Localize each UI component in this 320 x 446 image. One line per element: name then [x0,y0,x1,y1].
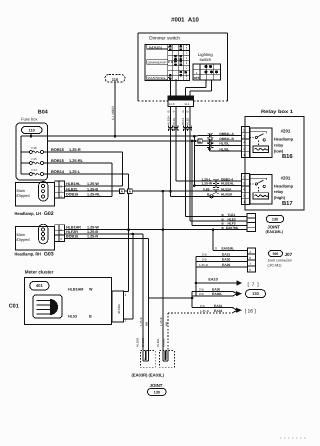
svg-text:B: B [186,111,190,113]
svg-text:HLB2: HLB2 [186,117,190,125]
wire EA07ML branch [212,228,215,231]
svg-text:DIMMER/P: DIMMER/P [148,61,167,65]
svg-text:BOB16: BOB16 [66,235,78,239]
svg-text:(J/C-M1): (J/C-M1) [268,263,282,267]
headlamp LH assembly [16,182,55,206]
svg-text:HLDL: HLDL [172,117,176,125]
svg-text:Headlamp: Headlamp [274,184,294,189]
dimmer MAIN position [147,45,168,49]
svg-text:3: 3 [243,147,245,151]
connector glyph v10 [174,126,178,132]
svg-text:401IBA: 401IBA [117,304,121,314]
svg-text:0.85: 0.85 [203,187,210,191]
connector oval 401 [30,281,49,290]
svg-text:EA31: EA31 [222,253,230,257]
ground terminal 2 [160,351,175,368]
svg-text:[ 7 ]: [ 7 ] [248,282,260,288]
junction 110/bus1 [114,135,117,138]
svg-text:1-I MB03: 1-I MB03 [111,106,115,120]
wire J07 row3 [196,261,247,263]
wire joint row2 [190,220,247,222]
svg-text:EA30: EA30 [222,258,230,262]
svg-text:5: 5 [249,268,251,272]
headlamp RH assembly [16,227,55,251]
glyph B16 row3 [207,143,213,147]
glyph B17 row2 [213,184,219,188]
wire lighting to connector pin3 [205,80,207,88]
wire dimmer to connector pin2 [175,79,177,96]
svg-text:JOINT: JOINT [150,383,163,388]
svg-text:8: 8 [249,256,251,260]
wire HLB2L ground drop [162,191,164,350]
svg-text:1.25-B: 1.25-B [139,317,143,326]
svg-text:BOB16: BOB16 [51,147,65,152]
wire y298 branch [148,297,192,299]
svg-text:130: 130 [252,291,259,296]
svg-text:(low): (low) [274,148,284,153]
svg-text:[ 16 ]: [ 16 ] [245,308,257,314]
fuse box outline [16,123,48,180]
connector A#123 [168,96,194,107]
svg-text:1.25-B: 1.25-B [200,309,209,313]
arrow EA10 [237,280,243,285]
svg-text:1: 1 [243,200,245,204]
svg-text:W: W [89,287,93,291]
svg-text:2-B: 2-B [202,258,207,262]
wire B16 row2 (bus2 to pin) [196,140,242,142]
svg-text:relay: relay [274,189,284,194]
connector oval 110 fuse box [22,127,43,134]
wire BOB15 stub [65,196,112,198]
svg-text:(EA03R) (EA03L): (EA03R) (EA03L) [132,372,165,377]
svg-text:/Dipped: /Dipped [16,237,29,242]
fuse F16 [29,151,32,154]
wire v12 dimmer drop [189,107,191,222]
wire v10 dimmer drop [175,107,177,182]
svg-text:5: 5 [243,128,245,132]
svg-text:HLB1H: HLB1H [166,116,170,125]
svg-text:1: 1 [125,293,127,297]
svg-text:HLB1L: HLB1L [156,338,160,347]
dashed wire x168 ground [167,313,169,351]
ground terminal 1 [141,351,156,368]
svg-text:HLF2R: HLF2R [66,230,78,234]
svg-text:B17: B17 [282,201,293,207]
svg-text:EA03R: EA03R [141,338,145,347]
svg-text:#201: #201 [281,176,291,181]
wire BOB16 row [44,151,123,153]
svg-text:2: 2 [125,319,127,323]
svg-text:EA10: EA10 [208,277,217,281]
glyph B16 row1 [207,134,213,138]
wire BOB16R ground drop [147,239,149,351]
wire EA fork2 [192,307,233,309]
svg-text:HLB1R: HLB1R [136,338,140,347]
svg-text:relay: relay [274,142,284,147]
connector oval 130 bottom [148,388,167,395]
svg-text:HL02A: HL02A [221,187,232,191]
svg-text:PASSING: PASSING [148,76,167,80]
wire v9 dimmer drop [170,107,172,197]
glyph B17 row3 [213,189,219,193]
meter cluster box [25,278,112,325]
svg-text:F14: F14 [32,168,38,172]
svg-text:2: 2 [243,175,245,179]
svg-text:#201: #201 [281,128,291,133]
svg-text:2-B: 2-B [199,292,204,296]
glyph B16 row2 [207,139,213,143]
svg-text:C01: C01 [9,304,19,310]
svg-text:11-1: 11-1 [184,102,190,106]
svg-text:1.25-W: 1.25-W [87,182,99,186]
svg-text:DBB2L-A: DBB2L-A [219,132,234,136]
svg-text:B: B [89,315,92,319]
inline connector A B16row2 [198,139,202,143]
wire B16 row1 [198,135,242,137]
svg-text:Relay box 1: Relay box 1 [261,109,293,115]
wire HLB1HL [65,185,123,187]
bus wire 2 [48,140,196,142]
svg-text:F15: F15 [32,157,38,161]
page artifact dots [280,437,306,439]
svg-text:A#123: A#123 [175,97,186,101]
glyph B17 row4 circle [210,195,213,198]
svg-text:Headlamp: Headlamp [274,137,294,142]
svg-text:1.25-R: 1.25-R [69,147,81,152]
svg-text:DOB16: DOB16 [66,193,78,197]
wire HLF2R ground drop [142,234,144,350]
wire J07 row4 [196,266,247,268]
svg-text:2: 2 [249,250,251,254]
meter pin strip [112,291,124,322]
svg-text:MAIN: MAIN [149,45,163,49]
svg-text:Meter cluster: Meter cluster [25,269,54,274]
wire B16 row3 [194,141,196,145]
svg-text:HLB1HL: HLB1HL [221,182,234,186]
dimmer DIMMER position [147,60,168,65]
svg-text:HLB2L: HLB2L [66,187,79,191]
fuse F14 [29,173,32,176]
junction HLB1HR meter drop [127,228,130,231]
svg-text:B04: B04 [38,110,48,116]
inline connector A right [127,189,132,193]
wire J07 row2 [196,256,247,258]
svg-text:DBB2L-B: DBB2L-B [219,137,234,141]
wire v192 [191,291,193,307]
bus wire 1 [21,135,198,137]
relay box 1 outline [245,117,304,211]
svg-text:4: 4 [243,188,245,192]
wire lighting to connector pin4 [211,80,213,91]
connector glyph v9 [169,126,173,132]
lighting switch grid [193,64,221,80]
svg-text:1.25-L: 1.25-L [69,169,81,174]
wire BOB15 row [44,162,113,164]
wire BOB15 drop [111,163,113,197]
dashed wire corner [167,312,169,314]
svg-text:EA29: EA29 [222,263,230,267]
svg-text:B: B [166,111,170,113]
connector J07 bar [247,248,255,272]
svg-text:1.25-B: 1.25-B [87,187,98,191]
svg-text:J07: J07 [285,252,293,257]
svg-text:5: 5 [243,182,245,186]
svg-text:JOINT: JOINT [267,224,280,229]
wire oval to bus [30,134,32,137]
svg-text:MB: MB [165,322,169,326]
svg-text:7: 7 [249,262,251,266]
junction bus2 v13 [191,140,194,143]
svg-text:(EA01ML): (EA01ML) [266,230,284,234]
wire BOB16R [65,238,149,240]
wire joint row3 [192,225,247,227]
wire HLB1HR long row [65,229,247,231]
connector oval 595 [269,251,283,257]
svg-text:HLB1HR: HLB1HR [66,226,81,230]
svg-text:4: 4 [243,141,245,145]
svg-text:110: 110 [29,129,35,133]
svg-text:HLB1HL: HLB1HL [66,182,81,186]
svg-text:EA30: EA30 [212,287,220,291]
wire BOB14 drop [128,174,130,292]
wire v196 [195,257,197,297]
fuse F15 [29,162,32,165]
wire v13 [191,141,193,226]
svg-text:HLF2: HLF2 [181,118,185,125]
svg-text:HL/OL: HL/OL [219,147,229,151]
svg-text:Headlamp, LH: Headlamp, LH [15,211,42,216]
wire dimmer to connector pin1 [170,79,172,96]
svg-text:1.25-W: 1.25-W [202,182,214,186]
wire HLB1HM [124,291,129,293]
connector oval 130 right [246,290,266,298]
svg-text:1: 1 [243,153,245,157]
connector oval 130 joint [266,215,283,222]
wire B17 row2 [193,136,195,185]
glyph B17 row1 [213,179,219,183]
svg-text:2: 2 [243,135,245,139]
svg-text:12-6: 12-6 [169,102,175,106]
svg-text:Dimmer switch: Dimmer switch [149,35,180,40]
svg-text:110: 110 [112,77,119,82]
svg-text:2-B: 2-B [202,253,207,257]
dimmer switch outer box [138,32,228,34]
wire meter drop 2 [132,234,134,319]
svg-text:#001 A10: #001 A10 [171,17,199,24]
svg-text:2-B: 2-B [199,287,204,291]
svg-text:Y: Y [172,111,176,113]
svg-text:Joint connector: Joint connector [268,258,293,262]
svg-text:BOB14: BOB14 [51,169,65,174]
junction HLF2R meter drop [132,233,135,236]
relay B16 [241,127,249,158]
joint connector bar [247,213,256,231]
dimmer contact dots [169,45,172,48]
svg-text:1.25-RL: 1.25-RL [87,193,101,197]
junction HLB2L ground drop [162,190,165,193]
svg-text:HL/02K: HL/02K [221,192,233,196]
fuse feed bus [20,136,22,174]
wire from 110 down [114,82,116,136]
wire joint row1 [185,216,247,218]
svg-text:1.25-B: 1.25-B [159,317,163,326]
svg-text:BOB15: BOB15 [51,158,65,163]
svg-text:HL53: HL53 [68,315,77,319]
svg-text:DBB2-4: DBB2-4 [221,177,233,181]
junction HLB2L dimmer wire [169,190,172,193]
svg-text:1.25-R: 1.25-R [87,235,98,239]
svg-text:3: 3 [243,194,245,198]
dimmer switch table [145,45,190,81]
inline connector A left [119,189,124,193]
wire HLF2R [65,233,143,235]
svg-text:1.25-B: 1.25-B [199,263,208,267]
svg-text:switch: switch [200,57,212,62]
svg-text:EA30L: EA30L [212,292,222,296]
svg-text:(high): (high) [274,195,286,200]
svg-text:OFF: OFF [194,76,200,80]
wire BOB14 row [44,173,129,175]
svg-text:130: 130 [154,390,160,394]
svg-text:G03: G03 [44,252,54,258]
wire HLB2L long row [65,190,242,192]
dimmer mech links [168,46,170,48]
svg-text:EA33: EA33 [214,309,222,313]
svg-text:/Dipped: /Dipped [16,193,29,198]
connector glyph v11 [183,126,187,132]
svg-text:HLB1HM: HLB1HM [68,287,83,291]
svg-text:B16: B16 [282,153,293,160]
wire EA fork1 [192,290,233,292]
svg-text:EA03L: EA03L [161,338,165,347]
svg-text:EA31: EA31 [214,304,222,308]
svg-text:1.25-B: 1.25-B [87,230,98,234]
wire v11 dimmer drop [184,107,186,217]
svg-text:1.25-W: 1.25-W [87,226,99,230]
svg-text:595: 595 [273,252,279,256]
svg-text:EA01ML: EA01ML [222,246,235,250]
svg-text:MB: MB [144,322,148,326]
dashed wire x148 ground [147,298,149,351]
wire BOB16 drop [122,152,124,186]
svg-text:G02: G02 [44,211,54,217]
wire joint row4 to bar [213,229,247,231]
svg-text:Fuse box: Fuse box [21,117,37,122]
wire meter drop 1 [128,230,130,292]
dimmer PASSING position [147,75,168,80]
svg-text:2-B: 2-B [200,304,205,308]
svg-text:401: 401 [36,283,44,288]
connector oval 110 top [105,75,125,83]
svg-text:Headlamp, RH: Headlamp, RH [15,252,42,257]
wire B16 row4 [209,145,211,151]
svg-text:1.25-L: 1.25-L [202,177,212,181]
connector glyph v12 [188,126,192,132]
svg-text:130: 130 [272,217,278,221]
wire EA10 [196,282,237,284]
svg-text:F16: F16 [32,146,38,150]
relay B17 [241,174,249,205]
svg-text:HL/OL: HL/OL [219,142,229,146]
svg-text:1.25-RL: 1.25-RL [69,158,84,163]
meter highbeam icon [33,295,62,318]
